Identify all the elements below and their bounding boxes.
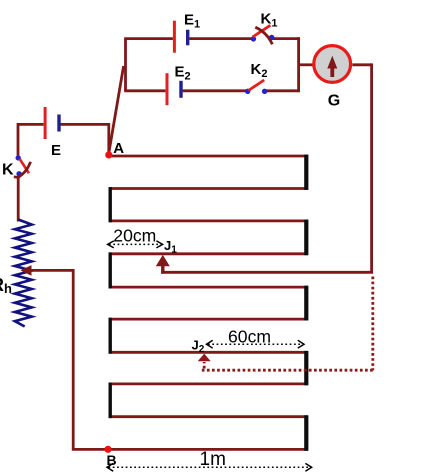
svg-text:K: K	[2, 162, 14, 179]
svg-text:A: A	[113, 140, 124, 157]
svg-text:20cm: 20cm	[113, 226, 156, 246]
svg-text:B: B	[107, 452, 117, 468]
svg-text:60cm: 60cm	[228, 327, 271, 347]
svg-text:G: G	[328, 92, 340, 109]
svg-text:E: E	[51, 142, 61, 159]
svg-text:1m: 1m	[200, 449, 226, 470]
